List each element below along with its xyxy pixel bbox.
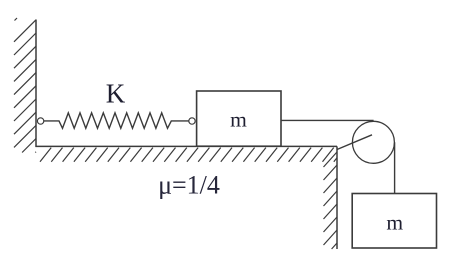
wall (left vertical wall line) bbox=[35, 20, 37, 148]
svg-text:K: K bbox=[106, 79, 126, 109]
spring K zigzag bbox=[44, 113, 189, 128]
svg-text:m: m bbox=[386, 211, 403, 235]
rope from block to pulley bbox=[281, 119, 374, 121]
wall hatching bbox=[14, 18, 36, 153]
spring right anchor pin bbox=[189, 118, 195, 124]
svg-text:m: m bbox=[230, 108, 247, 132]
spring left anchor pin bbox=[37, 118, 43, 124]
table edge hatching bbox=[324, 152, 338, 249]
svg-text:μ=1/4: μ=1/4 bbox=[158, 170, 220, 199]
floor (table top surface line) bbox=[37, 145, 338, 147]
hanging block m bbox=[352, 194, 436, 249]
rope from pulley to hanging mass bbox=[394, 142, 396, 193]
pulley at table corner bbox=[352, 121, 394, 163]
floor hatching (friction surface) bbox=[40, 148, 337, 162]
table corner right edge bbox=[336, 146, 338, 249]
block m on table bbox=[197, 91, 281, 146]
pulley support bar bbox=[337, 135, 372, 150]
